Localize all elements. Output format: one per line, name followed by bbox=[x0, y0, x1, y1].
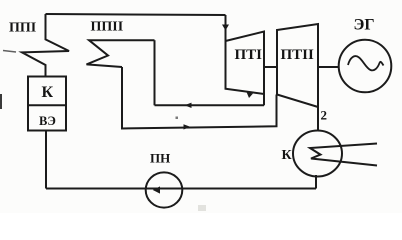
svg-text:ПТI: ПТI bbox=[235, 47, 263, 63]
svg-text:ППI: ППI bbox=[9, 21, 36, 36]
condenser coil and cooling pipes bbox=[310, 144, 377, 166]
reheater PPII symbol bbox=[87, 40, 155, 67]
arrow inlet down bbox=[222, 25, 229, 31]
svg-text:К: К bbox=[282, 148, 293, 163]
pump PN circle bbox=[146, 172, 183, 207]
wire PTI inlet drop bbox=[225, 15, 227, 41]
wire cold reheat riser bbox=[154, 40, 156, 105]
svg-text:ПН: ПН bbox=[150, 151, 170, 166]
arrow hot reheat right bbox=[184, 124, 191, 129]
pump arrow left bbox=[153, 186, 160, 193]
scan speckle dot bbox=[176, 117, 179, 120]
svg-text:2: 2 bbox=[321, 108, 328, 123]
boiler divider bbox=[28, 104, 66, 106]
generator EG circle bbox=[339, 40, 392, 93]
generator sine wave bbox=[348, 56, 384, 70]
wire main steam top line bbox=[46, 14, 226, 15]
svg-text:ППII: ППII bbox=[91, 20, 124, 35]
shaft PTI-PTII bbox=[264, 66, 277, 68]
turbine PTI body bbox=[226, 32, 265, 95]
scan smudge bottom bbox=[198, 205, 206, 211]
condenser circle K bbox=[293, 131, 342, 177]
turbine PTII body bbox=[277, 24, 318, 107]
svg-text:ЭГ: ЭГ bbox=[354, 17, 375, 34]
scan artifact left edge bar bbox=[0, 94, 2, 109]
wire condenser drop bbox=[315, 175, 317, 189]
wire PTII exhaust to condenser bbox=[317, 107, 319, 131]
shaft PTII-generator bbox=[318, 66, 339, 68]
superheater PPI zigzag bbox=[22, 14, 69, 77]
wire hot reheat down-right-up bbox=[122, 67, 277, 129]
arrow mark on PTI bottom edge bbox=[247, 92, 254, 98]
wire cold reheat horizontal bbox=[155, 104, 265, 106]
svg-text:ВЭ: ВЭ bbox=[39, 114, 56, 128]
wire condensate line bbox=[46, 188, 316, 190]
svg-text:К: К bbox=[42, 84, 54, 101]
arrow cold reheat left bbox=[185, 103, 192, 108]
wire PTI exhaust extension bbox=[263, 94, 265, 105]
svg-text:ПТII: ПТII bbox=[281, 47, 315, 63]
scan artifact left edge dash bbox=[3, 51, 16, 53]
boiler box K/VE bbox=[28, 77, 66, 131]
wire feedwater riser bbox=[45, 131, 47, 189]
